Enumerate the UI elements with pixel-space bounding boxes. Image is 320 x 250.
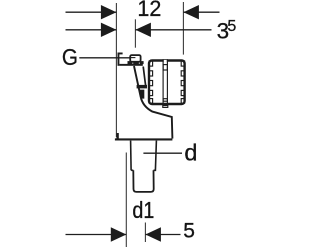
- svg-text:d1: d1: [132, 197, 154, 223]
- svg-text:12: 12: [137, 0, 161, 21]
- svg-text:5: 5: [227, 18, 236, 35]
- svg-text:5: 5: [183, 220, 195, 243]
- svg-text:d: d: [184, 140, 197, 166]
- svg-text:G: G: [62, 44, 78, 71]
